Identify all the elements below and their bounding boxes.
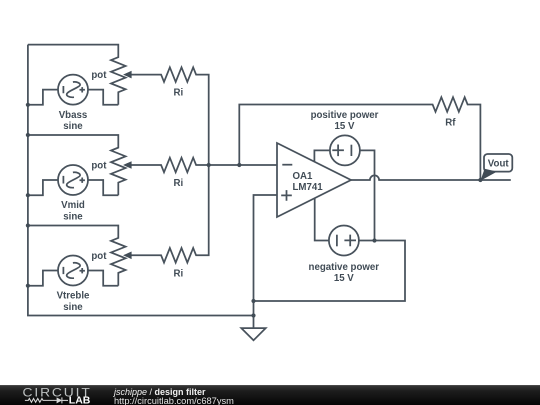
svg-text:Vtreble: Vtreble (57, 291, 90, 302)
svg-text:sine: sine (63, 211, 83, 222)
svg-text:Ri: Ri (173, 88, 183, 99)
svg-text:Vmid: Vmid (61, 200, 85, 211)
svg-text:Vbass: Vbass (59, 110, 88, 121)
svg-text:pot: pot (91, 70, 107, 81)
svg-text:Vout: Vout (488, 159, 510, 170)
svg-text:LAB: LAB (69, 395, 91, 405)
svg-text:positive power: positive power (311, 110, 379, 121)
svg-text:LM741: LM741 (293, 182, 324, 193)
svg-text:sine: sine (63, 302, 83, 313)
svg-text:sine: sine (63, 121, 83, 132)
svg-text:negative power: negative power (309, 262, 380, 273)
svg-text:pot: pot (91, 251, 107, 262)
svg-text:15 V: 15 V (335, 121, 355, 132)
svg-text:Ri: Ri (173, 268, 183, 279)
svg-text:Rf: Rf (445, 118, 456, 129)
svg-text:Ri: Ri (173, 178, 183, 189)
svg-text:15 V: 15 V (334, 273, 354, 284)
svg-text:pot: pot (91, 161, 107, 172)
svg-text:OA1: OA1 (293, 171, 314, 182)
svg-text:http://circuitlab.com/c687ysm: http://circuitlab.com/c687ysm (114, 396, 234, 405)
